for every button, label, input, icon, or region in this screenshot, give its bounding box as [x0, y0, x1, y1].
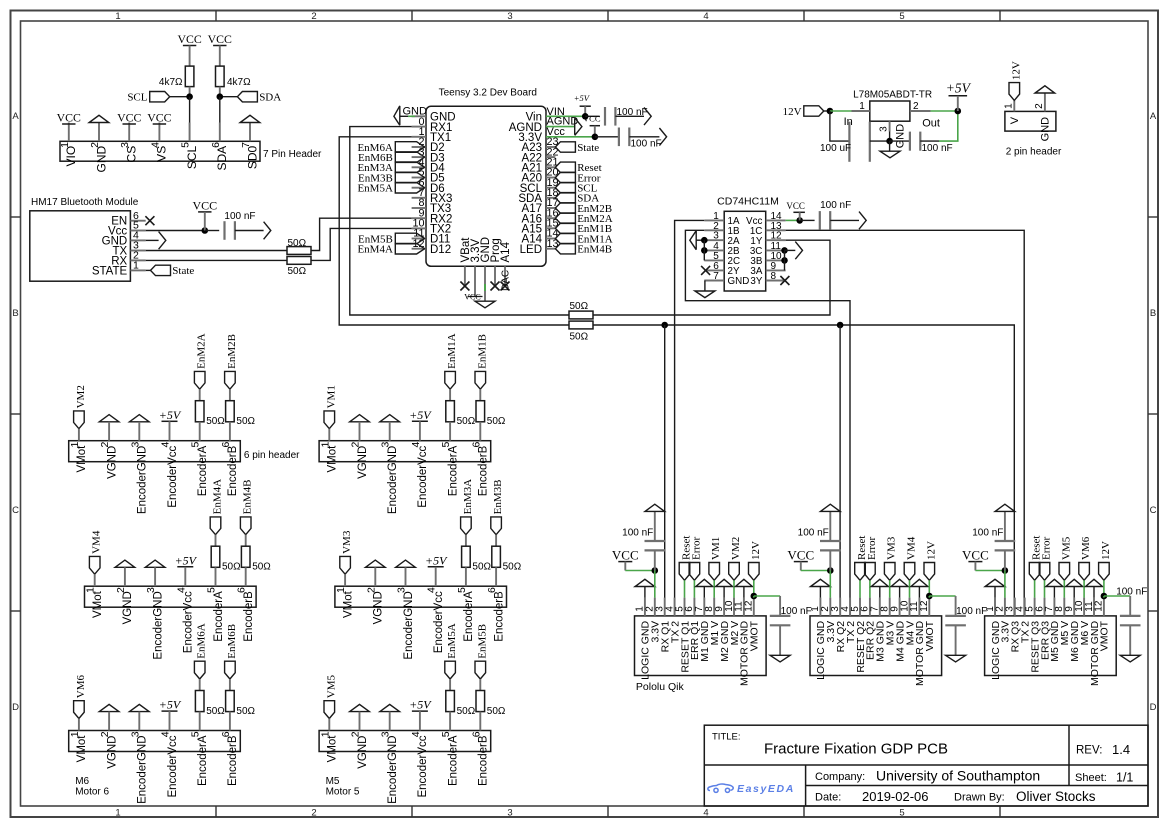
net flag 12V at Qik Q1 — [749, 563, 760, 581]
CD74 pin 7 GND — [704, 280, 724, 282]
svg-text:5: 5 — [899, 11, 904, 22]
+5V flag at VM1 pin4 — [412, 420, 428, 422]
GND at Qik Q2 pin7 — [871, 579, 888, 586]
svg-text:VMot: VMot — [92, 590, 104, 618]
reg pin 3 GND — [889, 121, 891, 131]
Qik Q1 pin 11 MOTOR GND — [743, 598, 745, 616]
svg-text:4k7Ω: 4k7Ω — [159, 77, 183, 88]
svg-text:VCC: VCC — [464, 292, 480, 301]
svg-text:State: State — [577, 142, 599, 154]
svg-text:EncoderB: EncoderB — [227, 735, 239, 786]
Pololu Qik Q1 box — [635, 616, 767, 676]
net flag SCL — [150, 92, 170, 102]
svg-text:12V: 12V — [925, 541, 937, 560]
GND net flag at Teensy GND — [394, 106, 400, 125]
GND at Qik Q1 pin11 — [735, 579, 752, 586]
svg-text:Error: Error — [690, 536, 702, 560]
svg-text:EncoderB: EncoderB — [493, 591, 505, 642]
wire — [189, 97, 191, 142]
svg-text:VGND: VGND — [357, 736, 369, 769]
wire — [220, 96, 238, 98]
svg-text:Drawn By:: Drawn By: — [954, 792, 1005, 804]
GND at Qik Q3 pin7 — [1046, 579, 1063, 586]
+5V flag at VM2 pin4 — [162, 420, 178, 422]
GND below Qik Q3 cap — [1129, 626, 1131, 656]
capacitor 100nF at Qik Q1 pin2 — [654, 550, 656, 570]
Qik Q3 pin 12 VMOT — [1103, 598, 1105, 616]
HM17 pin 3 TX — [130, 250, 145, 252]
CD74 pin 3 2A — [704, 239, 724, 241]
wire Teensy Vin green — [546, 115, 585, 117]
svg-text:SCL: SCL — [185, 145, 199, 169]
Teensy right pin A14 — [546, 238, 555, 240]
junction — [955, 108, 962, 115]
svg-text:Oliver Stocks: Oliver Stocks — [1016, 789, 1096, 804]
Teensy left pin D4 — [412, 166, 426, 168]
wire reg Out green — [931, 110, 958, 112]
svg-text:50Ω: 50Ω — [206, 416, 225, 427]
net flag VM2 — [74, 411, 85, 429]
7pin header pin 7 SD0 — [249, 123, 251, 142]
svg-text:VM1: VM1 — [710, 537, 722, 560]
wire RX resistor to Teensy TX2 — [311, 228, 412, 260]
svg-text:State: State — [172, 265, 194, 277]
svg-text:EnM4B: EnM4B — [577, 244, 612, 256]
svg-text:B: B — [1150, 308, 1156, 319]
Teensy right pin Vin — [545, 115, 547, 117]
resistor 50ohm at VM1 pin5 — [449, 389, 451, 401]
CD74 GND pin to ground — [704, 281, 706, 292]
capacitor 100uF C-in — [830, 111, 850, 141]
svg-text:+5V: +5V — [946, 81, 972, 96]
svg-text:100 nF: 100 nF — [798, 528, 829, 539]
svg-text:1: 1 — [115, 11, 120, 22]
svg-text:EncoderA: EncoderA — [197, 735, 209, 786]
svg-text:3: 3 — [507, 11, 512, 22]
+5V flag at Teensy Vin — [580, 105, 591, 107]
HM17 pin 2 RX — [130, 259, 145, 261]
wire Teensy TX1 to bus2 — [339, 137, 569, 325]
net flag EnM3B — [491, 517, 502, 535]
resistor 50ohm at VM3 pin5 — [465, 535, 467, 547]
svg-text:SDA: SDA — [259, 92, 281, 104]
svg-text:EnM3A: EnM3A — [462, 479, 474, 515]
svg-text:EnM1B: EnM1B — [476, 334, 488, 369]
svg-text:50Ω: 50Ω — [288, 238, 307, 249]
net flag EnM1A at Teensy right — [555, 233, 575, 243]
svg-text:D: D — [12, 702, 19, 713]
GND at VM4 pin3 — [145, 560, 165, 567]
2pin pin 1 V — [1013, 100, 1015, 111]
svg-text:A: A — [12, 111, 19, 122]
net flag Reset at Teensy right — [555, 162, 575, 172]
Qik Q2 pin 11 MOTOR GND — [918, 598, 920, 616]
junction — [1002, 567, 1009, 574]
Qik Q2 pin 10 M4 V — [909, 598, 911, 616]
HM17 pin 1 STATE — [130, 269, 145, 271]
svg-text:8: 8 — [771, 271, 777, 282]
CD74 pin 10 3B — [766, 259, 786, 261]
net flag EnM4B at Teensy right — [555, 244, 575, 254]
svg-text:SDA: SDA — [215, 146, 229, 171]
net flag EnM2B — [225, 371, 236, 389]
wire HM17 Vcc — [146, 230, 205, 232]
svg-text:1: 1 — [1004, 103, 1015, 109]
svg-text:Error: Error — [1041, 536, 1053, 560]
svg-text:VM5: VM5 — [1060, 536, 1072, 560]
Teensy right pin LED — [546, 248, 555, 250]
svg-text:+5V: +5V — [425, 553, 448, 567]
wire CD74 1B to Qik2 TX — [685, 230, 850, 616]
CD74 pin 8 3Y — [766, 280, 786, 282]
svg-text:12V: 12V — [1010, 61, 1022, 80]
svg-text:VGND: VGND — [122, 591, 134, 624]
Qik Q2 pin 6 ERR Q2 — [869, 598, 871, 616]
junction bus2 qik2 — [837, 322, 844, 329]
no-connect X Teensy Prog — [491, 282, 500, 291]
ground arrow — [659, 128, 666, 146]
svg-text:VCC: VCC — [612, 548, 639, 563]
GND on 7pin pin2 — [89, 115, 109, 122]
GND at Qik Q2 pin1 — [811, 579, 831, 586]
junction — [827, 567, 834, 574]
svg-text:6 pin header: 6 pin header — [244, 450, 300, 461]
svg-text:A: A — [1150, 111, 1157, 122]
+5V flag at regulator — [949, 95, 968, 97]
Qik Q3 pin 3 RX Q3 — [1014, 598, 1016, 616]
svg-text:EncoderVcc: EncoderVcc — [417, 735, 429, 797]
GND at VM1 pin2 — [350, 415, 370, 422]
svg-text:EnM6A: EnM6A — [196, 623, 208, 659]
svg-text:Teensy 3.2 Dev Board: Teensy 3.2 Dev Board — [439, 87, 537, 98]
wire — [800, 219, 815, 221]
GND above Qik Q2 cap — [829, 511, 831, 541]
GND at Qik Q3 pin1 — [985, 579, 1005, 586]
wire bus2 across — [593, 325, 1014, 616]
6 pin header VM3 — [335, 586, 507, 607]
capacitor 100nF at Qik Q1 VMOT — [779, 596, 781, 616]
GND at Qik Q3 pin9 — [1066, 579, 1083, 586]
net flag VM1 — [324, 411, 335, 429]
wire bus1 to CD74 1Y — [593, 240, 830, 315]
CD74 pin 14 Vcc — [766, 219, 786, 221]
svg-text:100 nF: 100 nF — [820, 200, 851, 211]
7pin header pin 3 CS — [128, 123, 130, 142]
Teensy right pin A23 — [546, 146, 555, 148]
Qik Q3 pin 4 TX 2 — [1024, 598, 1026, 616]
Teensy bottom pin A14 — [504, 266, 506, 286]
Teensy left pin RX2 — [412, 217, 426, 219]
Teensy left pin D6 — [412, 187, 426, 189]
HM17 pin 5 Vcc — [130, 230, 145, 232]
svg-text:HM17 Bluetooth Module: HM17 Bluetooth Module — [31, 197, 139, 208]
CD74 3C 3B 3A tie to ground arrow — [781, 247, 788, 254]
wire Teensy RX1 to bus1 — [350, 127, 569, 315]
svg-text:100 nF: 100 nF — [972, 528, 1003, 539]
GND below Qik Q2 cap — [955, 626, 957, 656]
wire — [189, 46, 191, 67]
svg-text:100 nF: 100 nF — [224, 211, 255, 222]
GND at Qik Q3 pin11 — [1086, 579, 1103, 586]
VCC flag at CD74 — [793, 211, 805, 213]
resistor 50ohm at VM4 pin6 — [245, 535, 247, 547]
svg-text:4: 4 — [703, 11, 708, 22]
Qik Q2 pin 2 3.3V — [829, 598, 831, 616]
wire to Qik2 RX — [839, 325, 841, 616]
svg-text:EnM5A: EnM5A — [357, 183, 393, 195]
wire Teensy AGND green — [546, 126, 575, 128]
svg-text:5: 5 — [899, 808, 904, 819]
net flag Error at Qik Q2 — [865, 563, 876, 581]
Teensy right pin A15 — [546, 227, 555, 229]
capacitor 100nF C-3v3 — [618, 128, 620, 147]
Pololu Qik Q3 box — [985, 616, 1117, 676]
Teensy left pin GND — [412, 115, 426, 117]
net flag EnM1B — [475, 371, 486, 389]
junction — [592, 134, 599, 141]
resistor 50ohm bus2 — [569, 321, 593, 329]
Teensy left pin RX1 — [412, 126, 426, 128]
svg-text:EncoderGND: EncoderGND — [387, 736, 399, 804]
wire CD74 1A to Qik1 TX — [675, 220, 705, 616]
Teensy right pin A17 — [546, 207, 555, 209]
CD74 pin 2 1B — [704, 229, 724, 231]
Teensy left pin D3 — [412, 156, 426, 158]
GND at Qik Q1 pin1 — [635, 579, 655, 586]
net flag Error at Qik Q3 — [1039, 563, 1050, 581]
svg-text:EncoderB: EncoderB — [227, 445, 239, 496]
svg-text:12: 12 — [919, 600, 930, 612]
GND above Qik Q1 cap — [654, 511, 656, 541]
svg-text:VMOT: VMOT — [1099, 620, 1111, 651]
Qik Q3 pin 8 M5 V — [1063, 598, 1065, 616]
svg-text:Fracture Fixation GDP PCB: Fracture Fixation GDP PCB — [764, 741, 948, 758]
junction — [886, 138, 893, 145]
Qik Q1 pin 5 RESET Q1 — [684, 598, 686, 616]
+5V flag at VM4 pin4 — [177, 566, 193, 568]
net flag State at HM17 — [146, 269, 151, 271]
svg-text:VCC: VCC — [962, 548, 989, 563]
svg-text:2: 2 — [311, 11, 316, 22]
net flag EnM5B at Teensy — [395, 233, 424, 244]
Qik Q3 pin 10 M6 V — [1083, 598, 1085, 616]
VCC flag (pull-up R2) — [213, 45, 226, 47]
GND at VM4 pin2 — [115, 560, 135, 567]
wire VCC to Qik Q2 pin2 green — [801, 570, 831, 572]
svg-text:50Ω: 50Ω — [288, 266, 307, 277]
Qik Q1 pin 6 ERR Q1 — [693, 598, 695, 616]
wire HM17 TX to resistor — [146, 250, 287, 252]
wire to Qik1 RX — [664, 325, 666, 616]
capacitor 100nF at Qik Q3 VMOT — [1129, 596, 1131, 616]
svg-text:REV:: REV: — [1076, 745, 1102, 757]
net flag EnM1A — [445, 371, 456, 389]
svg-text:50Ω: 50Ω — [457, 706, 476, 717]
Pololu Qik Q2 box — [810, 616, 942, 676]
net flag EnM3B at Teensy — [395, 172, 424, 183]
Teensy bottom pin GND — [484, 266, 486, 301]
svg-text:VM4: VM4 — [906, 536, 918, 560]
svg-text:50Ω: 50Ω — [236, 706, 255, 717]
Teensy bottom pin Prog — [494, 266, 496, 286]
Qik Q1 pin 3 RX Q1 — [664, 598, 666, 616]
svg-text:EncoderGND: EncoderGND — [403, 591, 415, 659]
svg-text:100 nF: 100 nF — [922, 143, 953, 154]
svg-text:VCC: VCC — [57, 111, 81, 125]
ground arrow — [264, 222, 271, 240]
Qik Q1 pin 8 M1 V — [713, 598, 715, 616]
svg-text:1/1: 1/1 — [1116, 770, 1133, 784]
svg-text:EncoderGND: EncoderGND — [387, 446, 399, 514]
GND at VM2 pin3 — [130, 415, 150, 422]
capacitor 100nF C-HM — [223, 221, 225, 240]
VCC small flag Teensy 3.3V bottom — [468, 296, 483, 298]
net flag Error at Teensy right — [555, 172, 575, 182]
svg-text:EncoderB: EncoderB — [478, 735, 490, 786]
svg-text:12V: 12V — [783, 106, 802, 118]
Teensy bottom pin 3.3V — [474, 266, 476, 296]
ground arrow — [644, 108, 651, 126]
svg-text:EncoderGND: EncoderGND — [137, 446, 149, 514]
svg-text:100 uF: 100 uF — [820, 143, 851, 154]
svg-text:+5V: +5V — [159, 698, 182, 712]
svg-text:VGND: VGND — [373, 591, 385, 624]
Teensy left pin TX2 — [412, 227, 426, 229]
svg-text:GND: GND — [1040, 117, 1052, 141]
svg-text:VIO: VIO — [64, 146, 78, 167]
ground at reg — [889, 141, 891, 151]
svg-text:EnM4A: EnM4A — [212, 479, 224, 515]
svg-text:12V: 12V — [1100, 541, 1112, 560]
Qik Q1 pin 4 TX 2 — [674, 598, 676, 616]
+5V flag at VM5 pin4 — [412, 710, 428, 712]
no-connect X on HM17 EN — [145, 216, 154, 225]
Teensy left pin TX3 — [412, 207, 426, 209]
net flag VM6 — [74, 701, 85, 719]
net flag EnM6B at Teensy — [395, 152, 424, 163]
net flag EnM3A at Teensy — [395, 162, 424, 173]
junction — [202, 227, 209, 234]
resistor 4k7 R1 — [185, 66, 194, 87]
svg-text:VGND: VGND — [106, 736, 118, 769]
wire TX resistor to Teensy RX2 — [311, 218, 412, 250]
svg-text:EncoderGND: EncoderGND — [137, 736, 149, 804]
7 pin header J1 — [60, 141, 260, 161]
svg-text:EnM2A: EnM2A — [196, 333, 208, 369]
svg-text:VM4: VM4 — [91, 530, 103, 554]
Teensy right pin SDA — [546, 197, 555, 199]
VCC flag on 7pin pin4 — [153, 123, 166, 125]
wire — [219, 46, 221, 67]
Teensy right pin 3.3V — [545, 136, 547, 138]
Qik Q3 pin 1 LOGIC GND — [994, 598, 996, 616]
net flag EnM2A — [194, 371, 205, 389]
svg-text:EncoderA: EncoderA — [447, 735, 459, 786]
GND at VM1 pin3 — [380, 415, 400, 422]
svg-text:100 nF: 100 nF — [622, 528, 653, 539]
6 pin header VM5 — [319, 731, 491, 752]
net flag EnM6A at Teensy — [395, 142, 424, 153]
svg-text:EncoderVcc: EncoderVcc — [167, 735, 179, 797]
capacitor 100nF at Qik Q2 VMOT — [955, 596, 957, 616]
GND at VM6 pin3 — [130, 704, 150, 711]
CD74 pin 4 2B — [704, 249, 724, 251]
net flag EnM6A — [194, 661, 205, 679]
svg-text:50Ω: 50Ω — [457, 416, 476, 427]
capacitor 100nF at Qik Q2 pin2 — [829, 550, 831, 570]
net flag SDA at Teensy right — [555, 193, 575, 203]
svg-text:2 pin header: 2 pin header — [1006, 147, 1062, 158]
svg-text:EnM1A: EnM1A — [446, 333, 458, 369]
svg-text:+5V: +5V — [574, 93, 591, 103]
resistor 50ohm at VM1 pin6 — [479, 389, 481, 401]
resistor 50ohm R-RX — [287, 257, 311, 265]
wire green out loop — [939, 111, 958, 141]
7pin header pin 4 VS — [158, 123, 160, 142]
svg-text:GND: GND — [94, 145, 108, 172]
svg-text:50Ω: 50Ω — [570, 301, 589, 312]
svg-text:2: 2 — [311, 808, 316, 819]
svg-text:VCC: VCC — [192, 198, 217, 212]
wire VCC to Qik Q3 pin2 green — [975, 570, 1005, 572]
capacitor 100nF C-CD74 — [819, 211, 821, 230]
svg-text:EnM5A: EnM5A — [446, 623, 458, 659]
net flag Reset at Qik Q3 — [1029, 563, 1040, 581]
svg-text:Motor 6: Motor 6 — [75, 787, 109, 798]
net flag EnM3A — [461, 517, 472, 535]
resistor 50ohm at VM2 pin6 — [229, 389, 231, 401]
svg-text:+5V: +5V — [175, 553, 198, 567]
net flag 12V at Qik Q3 — [1099, 563, 1110, 581]
junction — [582, 113, 589, 120]
Qik Q1 pin 12 VMOT — [753, 598, 755, 616]
svg-text:B: B — [12, 308, 18, 319]
6 pin header VM2 — [69, 441, 241, 462]
Qik Q1 pin 2 3.3V — [654, 598, 656, 616]
svg-text:VCC: VCC — [147, 111, 171, 125]
GND at VM5 pin3 — [380, 704, 400, 711]
CD74 pin 6 2Y — [704, 269, 724, 271]
2 pin header J2 — [1005, 111, 1056, 131]
svg-text:D: D — [1150, 702, 1157, 713]
wire to Qik Q3 output cap green — [1104, 595, 1130, 597]
svg-text:VMot: VMot — [76, 735, 88, 763]
capacitor 100nF C-Vin — [604, 107, 606, 126]
svg-text:Vcc: Vcc — [547, 126, 566, 138]
net flag EnM4B — [240, 517, 251, 535]
Teensy right pin A21 — [546, 166, 555, 168]
svg-text:50Ω: 50Ω — [222, 562, 241, 573]
svg-text:VMOT: VMOT — [749, 620, 761, 651]
svg-text:1: 1 — [133, 260, 139, 272]
svg-text:Out: Out — [922, 117, 940, 129]
net flag VM5 — [324, 701, 335, 719]
svg-text:VCC: VCC — [117, 111, 141, 125]
CD74 Vcc green wire — [786, 219, 800, 221]
Qik Q3 pin 7 M5 GND — [1053, 598, 1055, 616]
VCC flag (pull-up R1) — [183, 45, 196, 47]
net flag EnM5A at Teensy — [395, 182, 424, 193]
GND at VM2 pin2 — [99, 415, 119, 422]
svg-text:STATE: STATE — [92, 265, 128, 277]
7pin header pin 1 VIO — [68, 123, 70, 142]
CD74 pin 1 1A — [704, 219, 724, 221]
svg-text:EnM5B: EnM5B — [476, 624, 488, 659]
Teensy right pin A16 — [546, 217, 555, 219]
svg-text:EncoderB: EncoderB — [478, 445, 490, 496]
svg-text:VGND: VGND — [106, 446, 118, 479]
svg-text:C: C — [1150, 505, 1157, 516]
